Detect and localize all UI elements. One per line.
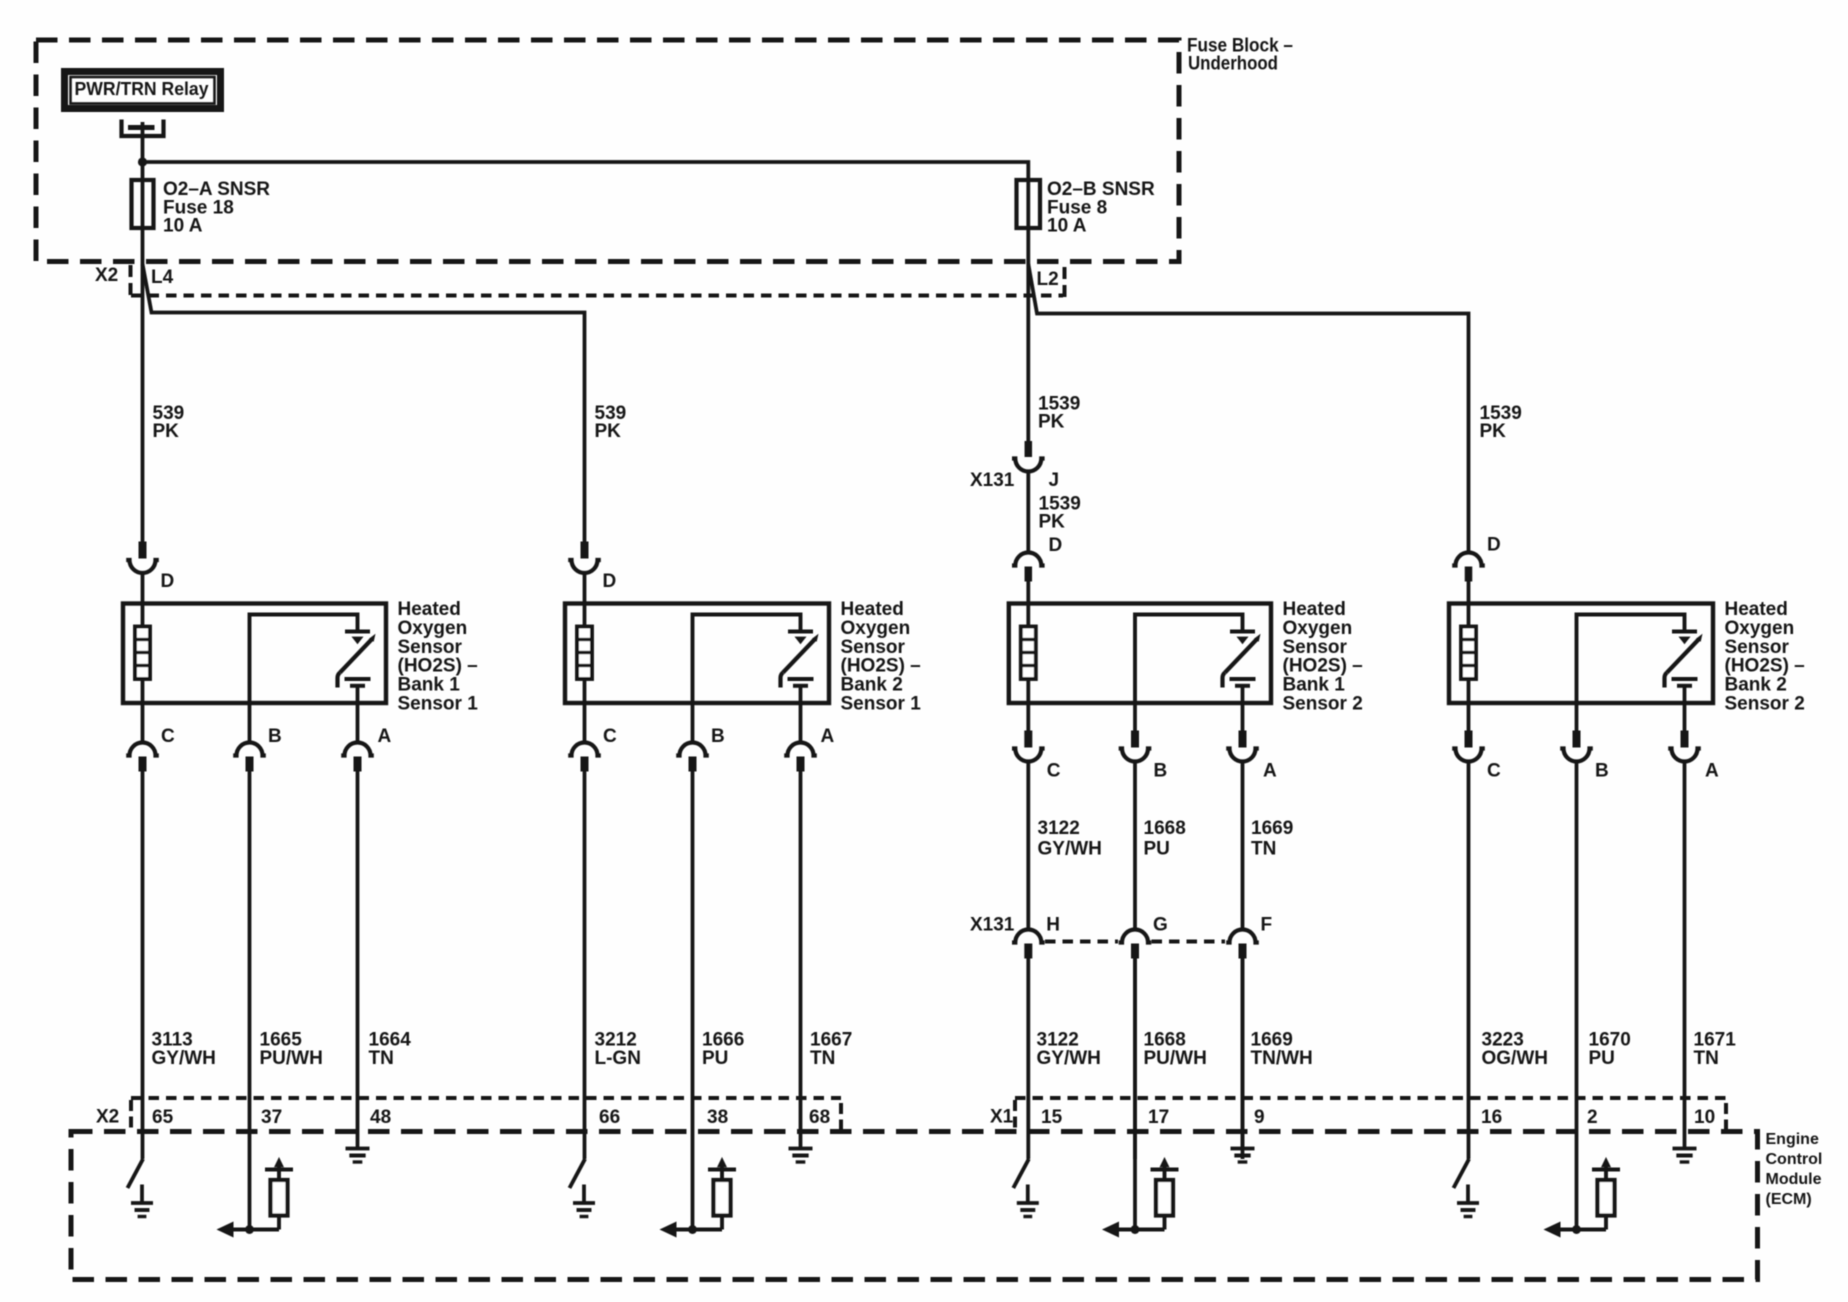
svg-text:Oxygen: Oxygen	[841, 618, 911, 639]
svg-text:GY/WH: GY/WH	[1037, 1048, 1101, 1069]
label: Fuse Block - Underhood	[1187, 36, 1293, 75]
connector X131 label (H/G/F row)	[970, 915, 1015, 936]
svg-text:Oxygen: Oxygen	[1283, 618, 1353, 639]
label wire 1669 TN/WH	[1251, 1030, 1313, 1070]
svg-text:X2: X2	[95, 265, 118, 286]
ground (pin 10)	[1673, 1149, 1697, 1163]
wire 1539 PK circuit 3 (to X131 J)	[1028, 263, 1080, 441]
wire 3212 L-GN	[583, 772, 587, 1160]
svg-text:PK: PK	[1038, 412, 1065, 433]
svg-text:37: 37	[261, 1107, 282, 1128]
svg-text:L4: L4	[151, 267, 174, 288]
label wire 3223 OG/WH	[1482, 1030, 1549, 1070]
svg-text:Oxygen: Oxygen	[1725, 618, 1795, 639]
svg-text:Sensor 2: Sensor 2	[1725, 694, 1805, 715]
label Engine Control Module (ECM)	[1766, 1131, 1823, 1208]
svg-text:(HO2S) –: (HO2S) –	[1283, 656, 1363, 677]
svg-text:Bank 2: Bank 2	[1725, 675, 1787, 696]
pin 10	[1694, 1107, 1715, 1128]
connector B circuit 4	[1560, 703, 1609, 782]
wire: relay to junction	[141, 122, 145, 180]
svg-text:B: B	[1595, 761, 1609, 782]
heated oxygen sensor HO2S Bank 2 Sensor 1 box	[565, 604, 829, 704]
svg-text:D: D	[603, 571, 617, 592]
svg-text:Heated: Heated	[1283, 599, 1346, 620]
ground (pin 68)	[789, 1149, 813, 1163]
ground (pin 9)	[1231, 1149, 1255, 1163]
pin L4	[151, 267, 174, 288]
heater element box 2	[577, 627, 592, 680]
svg-text:10: 10	[1694, 1107, 1715, 1128]
pin 65	[152, 1107, 174, 1128]
connector X131 pin J	[970, 441, 1059, 491]
connector X2 face (ECM)	[96, 1098, 841, 1129]
svg-text:65: 65	[152, 1107, 174, 1128]
connector D circuit 2	[568, 542, 616, 605]
wire heater to C pin box 4	[1467, 679, 1471, 703]
svg-text:48: 48	[370, 1107, 391, 1128]
wire heater to C pin box 2	[583, 679, 587, 703]
wire heater to C pin box 3	[1026, 679, 1030, 703]
svg-text:PU: PU	[702, 1048, 728, 1069]
label 1669 TN upper	[1251, 818, 1293, 859]
svg-text:PK: PK	[153, 421, 180, 442]
svg-text:Heated: Heated	[841, 599, 904, 620]
dashed connector face H-G	[1045, 940, 1118, 944]
fuse F18: O2-A SNSR 10 A	[132, 179, 271, 237]
wire heater feed inside box 1	[141, 604, 145, 627]
svg-text:GY/WH: GY/WH	[1038, 838, 1102, 859]
svg-text:C: C	[1047, 761, 1061, 782]
wire heater feed inside box 2	[583, 604, 587, 627]
relay K: PWR/TRN Relay box	[65, 72, 221, 109]
wire cell to A pin box 4	[1683, 686, 1687, 703]
svg-text:H: H	[1046, 915, 1060, 936]
sensing element (galvanic cell) box 2	[781, 632, 819, 688]
fuse block - underhood dashed box	[36, 40, 1179, 262]
svg-text:Sensor 1: Sensor 1	[398, 694, 479, 715]
connector A circuit 2	[784, 703, 834, 772]
wire 1669 TN/WH lower segment	[1241, 959, 1245, 1149]
svg-text:38: 38	[707, 1107, 728, 1128]
switch to ground (pin 16)	[1454, 1159, 1470, 1188]
pin 15	[1041, 1107, 1063, 1128]
svg-text:PK: PK	[1480, 421, 1507, 442]
svg-text:Module: Module	[1766, 1171, 1822, 1188]
driver resistor + reference (pin 37)	[217, 1157, 294, 1238]
wire cell to A pin box 3	[1241, 686, 1245, 703]
switch to ground (pin 15)	[1013, 1159, 1029, 1188]
svg-text:PK: PK	[595, 421, 622, 442]
wire 1667 TN	[799, 772, 803, 1149]
svg-text:B: B	[1154, 761, 1168, 782]
connector X131 pin G	[1119, 915, 1168, 1160]
svg-text:10 A: 10 A	[163, 216, 203, 237]
wire through fuse 18	[141, 180, 145, 263]
svg-text:C: C	[603, 726, 617, 747]
wire 1670 PU	[1575, 762, 1579, 1230]
wire 1668 PU (sensor to X131)	[1133, 762, 1137, 931]
ground (pin 65)	[131, 1185, 153, 1217]
ground (pin 48)	[346, 1149, 370, 1163]
svg-text:PK: PK	[1039, 512, 1066, 533]
sensing element (galvanic cell) box 3	[1223, 632, 1261, 688]
connector C circuit 1	[126, 703, 175, 772]
wire B return inside box 4	[1577, 615, 1685, 704]
sensing element (galvanic cell) box 1	[338, 632, 376, 688]
connector C circuit 4	[1452, 703, 1501, 782]
node: feed junction	[138, 157, 147, 166]
svg-text:A: A	[1263, 761, 1277, 782]
svg-text:TN: TN	[369, 1048, 394, 1069]
svg-text:D: D	[161, 571, 175, 592]
fuse F8: O2-B SNSR 10 A	[1017, 179, 1155, 237]
svg-text:1668: 1668	[1144, 818, 1186, 839]
sensing element (galvanic cell) box 4	[1665, 632, 1703, 688]
label wire 3113 GY/WH	[152, 1030, 216, 1070]
heater element box 4	[1461, 627, 1476, 680]
wire 1671 TN	[1683, 762, 1687, 1149]
ground (pin 66)	[573, 1185, 595, 1217]
svg-text:15: 15	[1041, 1107, 1063, 1128]
svg-text:X131: X131	[970, 470, 1015, 491]
label heated oxygen sensor 4	[1725, 599, 1805, 715]
connector X131 pin H	[1012, 915, 1060, 1160]
svg-text:TN: TN	[1694, 1048, 1719, 1069]
svg-text:66: 66	[599, 1107, 620, 1128]
heater element box 1	[135, 627, 150, 680]
connector D circuit 3	[1012, 535, 1062, 604]
svg-text:Bank 1: Bank 1	[398, 675, 461, 696]
svg-text:X2: X2	[96, 1107, 119, 1128]
label wire 1666 PU	[702, 1030, 744, 1070]
svg-text:TN: TN	[1251, 838, 1276, 859]
wire 539 PK circuit 1 (to D, bank1 sensor1)	[143, 263, 185, 542]
label wire 3122 GY/WH	[1037, 1030, 1101, 1070]
label wire 1668 PU/WH	[1144, 1030, 1207, 1070]
label wire 1671 TN	[1694, 1030, 1737, 1070]
svg-text:X1: X1	[990, 1107, 1014, 1128]
svg-text:Engine: Engine	[1766, 1131, 1819, 1148]
connector X2 label + tick	[95, 265, 131, 296]
ground (pin 16)	[1457, 1185, 1479, 1217]
wire cell to A pin box 1	[356, 686, 360, 703]
label wire 3212 L-GN	[595, 1030, 641, 1070]
svg-text:Bank 1: Bank 1	[1283, 675, 1346, 696]
svg-text:GY/WH: GY/WH	[152, 1048, 216, 1069]
wire 1668 PU/WH lower segment	[1133, 959, 1137, 1230]
svg-text:2: 2	[1587, 1107, 1598, 1128]
svg-text:D: D	[1049, 535, 1063, 556]
svg-text:A: A	[821, 726, 835, 747]
svg-text:PU: PU	[1589, 1048, 1615, 1069]
heated oxygen sensor HO2S Bank 1 Sensor 1 box	[123, 604, 386, 704]
svg-text:(HO2S) –: (HO2S) –	[398, 656, 478, 677]
svg-text:A: A	[378, 726, 392, 747]
svg-text:68: 68	[809, 1107, 830, 1128]
connector B circuit 1	[233, 703, 282, 772]
pin 37	[261, 1107, 282, 1128]
label wire 1665 PU/WH	[260, 1030, 323, 1070]
label 3122 GY/WH upper	[1038, 818, 1102, 859]
connector C circuit 3	[1012, 703, 1061, 782]
heated oxygen sensor HO2S Bank 2 Sensor 2 box	[1449, 604, 1713, 704]
wire heater feed inside box 4	[1467, 604, 1471, 627]
svg-text:Oxygen: Oxygen	[398, 618, 468, 639]
connector row X2 : dotted face line	[131, 294, 1063, 298]
heated oxygen sensor HO2S Bank 1 Sensor 2 box	[1009, 604, 1271, 704]
svg-text:Control: Control	[1766, 1151, 1823, 1168]
dashed connector face G-F	[1152, 940, 1226, 944]
svg-text:PU/WH: PU/WH	[260, 1048, 323, 1069]
label heated oxygen sensor 2	[841, 599, 922, 715]
wire 1669 TN (sensor to X131)	[1241, 762, 1245, 931]
connector D circuit 1	[126, 542, 174, 605]
wire 1666 PU	[691, 772, 695, 1230]
wire 3122 GY/WH (sensor to X131)	[1026, 762, 1030, 931]
svg-text:3122: 3122	[1038, 818, 1080, 839]
driver resistor + reference (pin 2)	[1544, 1157, 1621, 1238]
switch to ground (pin 66)	[570, 1159, 586, 1188]
svg-text:Heated: Heated	[398, 599, 461, 620]
pin L2 + tick	[1037, 267, 1065, 297]
svg-text:G: G	[1153, 915, 1168, 936]
pin 9	[1254, 1107, 1265, 1128]
svg-text:1669: 1669	[1251, 818, 1293, 839]
switch to ground (pin 65)	[128, 1159, 144, 1188]
wire branch 539 PK circuit 2	[143, 264, 627, 542]
svg-text:X131: X131	[970, 915, 1015, 936]
label heated oxygen sensor 3	[1283, 599, 1363, 715]
wire 1665 PU/WH	[248, 772, 252, 1230]
ground (pin 15)	[1017, 1185, 1039, 1217]
svg-text:B: B	[711, 726, 725, 747]
svg-text:(ECM): (ECM)	[1766, 1191, 1812, 1208]
driver resistor + reference (pin 38)	[660, 1157, 737, 1238]
svg-text:L2: L2	[1037, 269, 1059, 290]
engine control module ECM dashed box	[71, 1132, 1758, 1280]
svg-text:J: J	[1049, 470, 1060, 491]
wire B return inside box 2	[693, 615, 801, 704]
svg-text:A: A	[1705, 761, 1719, 782]
svg-text:F: F	[1261, 915, 1273, 936]
svg-text:OG/WH: OG/WH	[1482, 1048, 1549, 1069]
wire 1539 PK J to D	[1028, 472, 1080, 554]
label heated oxygen sensor 1	[398, 599, 479, 715]
connector B circuit 3	[1119, 703, 1168, 782]
connector A circuit 4	[1668, 703, 1719, 782]
svg-text:(HO2S) –: (HO2S) –	[1725, 656, 1805, 677]
label wire 1664 TN	[369, 1030, 412, 1070]
wire 3223 OG/WH	[1467, 762, 1471, 1160]
wire B return inside box 1	[250, 615, 358, 704]
svg-text:C: C	[161, 726, 175, 747]
connector C circuit 2	[568, 703, 617, 772]
label wire 1667 TN	[810, 1030, 852, 1070]
svg-text:B: B	[268, 726, 282, 747]
svg-text:(HO2S) –: (HO2S) –	[841, 656, 921, 677]
pin 68	[809, 1107, 830, 1128]
pin 38	[707, 1107, 728, 1128]
wire B return inside box 3	[1135, 615, 1243, 704]
pin 16	[1481, 1107, 1502, 1128]
label 1668 PU upper	[1144, 818, 1186, 859]
connector A circuit 1	[341, 703, 391, 772]
svg-text:PU: PU	[1144, 838, 1170, 859]
svg-text:Underhood: Underhood	[1188, 54, 1278, 75]
connector D circuit 4	[1452, 535, 1501, 605]
connector X1 face (ECM)	[990, 1098, 1726, 1129]
svg-text:PU/WH: PU/WH	[1144, 1048, 1207, 1069]
svg-text:17: 17	[1148, 1107, 1169, 1128]
connector X131 pin F	[1226, 915, 1272, 1160]
wire heater feed inside box 3	[1026, 604, 1030, 627]
pin 48	[370, 1107, 391, 1128]
pin 66	[599, 1107, 620, 1128]
heater element box 3	[1021, 627, 1036, 680]
svg-text:16: 16	[1481, 1107, 1502, 1128]
svg-text:Heated: Heated	[1725, 599, 1788, 620]
driver resistor + reference (pin 17)	[1102, 1157, 1179, 1238]
wire 1664 TN	[356, 772, 360, 1149]
pin 17	[1148, 1107, 1169, 1128]
pin 2	[1587, 1107, 1598, 1128]
wire 3113 GY/WH	[141, 772, 145, 1160]
svg-text:9: 9	[1254, 1107, 1265, 1128]
svg-text:C: C	[1487, 761, 1501, 782]
wire heater to C pin box 1	[141, 679, 145, 703]
connector B circuit 2	[676, 703, 725, 772]
svg-text:10 A: 10 A	[1047, 216, 1087, 237]
svg-text:Sensor 1: Sensor 1	[841, 694, 922, 715]
label wire 1670 PU	[1589, 1030, 1631, 1070]
wire branch 1539 PK circuit 4	[1028, 264, 1521, 553]
svg-text:Sensor 2: Sensor 2	[1283, 694, 1363, 715]
svg-text:TN: TN	[810, 1048, 835, 1069]
svg-text:PWR/TRN Relay: PWR/TRN Relay	[75, 78, 210, 99]
connector A circuit 3	[1226, 703, 1277, 782]
wire cell to A pin box 2	[799, 686, 803, 703]
wire through fuse 8	[1026, 180, 1030, 263]
relay contact symbol	[122, 120, 164, 137]
svg-text:TN/WH: TN/WH	[1251, 1048, 1313, 1069]
svg-text:D: D	[1487, 535, 1501, 556]
svg-text:Bank 2: Bank 2	[841, 675, 903, 696]
svg-text:L-GN: L-GN	[595, 1048, 641, 1069]
wire: feed bus to fuse 8	[143, 162, 1029, 180]
